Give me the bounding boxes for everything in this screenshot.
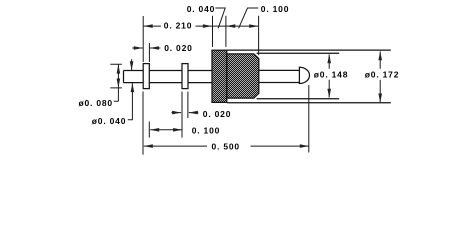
svg-text:0. 500: 0. 500 (212, 142, 240, 152)
svg-text:ø0. 080: ø0. 080 (79, 98, 113, 108)
svg-text:0. 020: 0. 020 (164, 43, 192, 53)
svg-text:0. 040: 0. 040 (187, 4, 215, 14)
svg-text:0. 020: 0. 020 (203, 109, 231, 119)
svg-text:ø0. 148: ø0. 148 (314, 70, 348, 80)
svg-text:0. 100: 0. 100 (192, 126, 220, 136)
svg-text:ø0. 040: ø0. 040 (92, 116, 126, 126)
svg-text:ø0. 172: ø0. 172 (365, 70, 399, 80)
svg-text:0. 100: 0. 100 (261, 4, 289, 14)
svg-text:0. 210: 0. 210 (164, 21, 192, 31)
